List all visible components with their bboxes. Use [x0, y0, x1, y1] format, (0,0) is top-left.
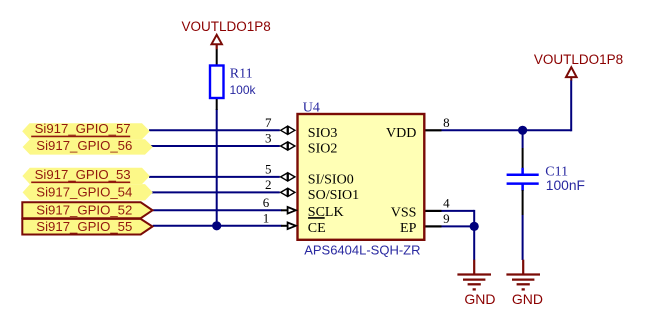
svg-text:2: 2: [265, 177, 272, 192]
svg-text:100nF: 100nF: [546, 178, 585, 193]
svg-text:3: 3: [265, 131, 272, 146]
svg-text:4: 4: [443, 195, 450, 210]
svg-text:VSS: VSS: [391, 206, 417, 221]
svg-text:7: 7: [265, 115, 272, 130]
svg-text:9: 9: [443, 211, 450, 226]
svg-text:C11: C11: [545, 164, 568, 179]
svg-text:Si917_GPIO_56: Si917_GPIO_56: [36, 138, 132, 153]
svg-text:VOUTLDO1P8: VOUTLDO1P8: [182, 19, 271, 34]
svg-text:SO/SIO1: SO/SIO1: [308, 188, 359, 203]
svg-text:U4: U4: [303, 101, 320, 116]
svg-text:GND: GND: [464, 291, 495, 307]
svg-text:R11: R11: [230, 67, 253, 82]
svg-text:SIO3: SIO3: [308, 126, 338, 141]
svg-text:Si917_GPIO_53: Si917_GPIO_53: [35, 167, 131, 182]
svg-text:1: 1: [263, 210, 270, 225]
svg-text:VOUTLDO1P8: VOUTLDO1P8: [534, 52, 623, 67]
svg-text:APS6404L-SQH-ZR: APS6404L-SQH-ZR: [304, 243, 420, 258]
svg-text:Si917_GPIO_54: Si917_GPIO_54: [36, 184, 132, 199]
svg-text:6: 6: [263, 195, 270, 210]
svg-text:8: 8: [443, 115, 450, 130]
svg-text:SIO2: SIO2: [308, 142, 338, 157]
svg-text:CE: CE: [308, 221, 326, 236]
svg-text:GND: GND: [512, 291, 543, 307]
svg-text:Si917_GPIO_52: Si917_GPIO_52: [36, 202, 132, 217]
svg-text:EP: EP: [400, 221, 417, 236]
svg-text:Si917_GPIO_55: Si917_GPIO_55: [36, 219, 132, 234]
svg-text:5: 5: [265, 161, 272, 176]
svg-text:Si917_GPIO_57: Si917_GPIO_57: [35, 121, 131, 136]
svg-text:SI/SIO0: SI/SIO0: [308, 172, 354, 187]
svg-text:VDD: VDD: [386, 126, 416, 141]
svg-text:100k: 100k: [230, 83, 257, 97]
